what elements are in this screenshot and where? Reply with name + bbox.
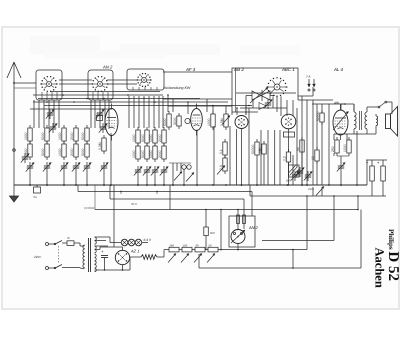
mixer shield box — [232, 68, 298, 115]
coil L1b — [24, 141, 32, 160]
label ABL — [333, 101, 340, 105]
svg-text:5000: 5000 — [141, 134, 145, 142]
svg-text:5000: 5000 — [41, 132, 45, 140]
resistor R11 — [173, 113, 181, 129]
speaker return wire — [334, 130, 376, 134]
wire col 307 — [306, 184, 308, 186]
trimmer CT9 — [160, 166, 168, 176]
resistor R22 — [311, 147, 319, 164]
voltage tap arrow 4 — [207, 254, 215, 263]
filter choke L20 — [141, 255, 157, 260]
band switch S1 box — [36, 70, 62, 100]
svg-text:50: 50 — [209, 243, 213, 247]
wire hv rail — [179, 249, 307, 251]
svg-text:1000: 1000 — [149, 134, 153, 142]
label AF 3 — [185, 67, 196, 72]
resistor R13 — [316, 110, 324, 125]
coil L4a — [70, 125, 78, 144]
potentiometer P2 — [217, 166, 225, 175]
wire col 261 — [260, 130, 262, 185]
ground bus — [14, 184, 367, 186]
tube V1 AF7 — [105, 104, 118, 141]
oscillator trimmer — [264, 99, 272, 109]
dial lamp LP3 — [135, 239, 142, 246]
coil L7b — [141, 143, 149, 162]
wire heater drop — [113, 185, 115, 247]
wire box internals — [42, 87, 157, 100]
trimmer CT5 — [83, 162, 91, 172]
heater wiring — [95, 237, 122, 246]
coil L6b — [132, 143, 140, 162]
svg-text:3000: 3000 — [173, 117, 177, 125]
svg-text:(n+80m): (n+80m) — [84, 206, 95, 210]
capacitor C40 — [101, 249, 108, 270]
mains terminals — [33, 243, 49, 270]
capacitor C3 row — [96, 109, 107, 133]
capacitor C41 — [204, 210, 215, 250]
svg-text:AN 2: AN 2 — [102, 65, 113, 70]
coil L8a — [149, 127, 157, 146]
voltage tap arrow 2 — [181, 254, 189, 263]
wire colm3 — [154, 176, 156, 186]
trimmer CT12 — [291, 171, 299, 181]
resistor R31 — [182, 243, 192, 252]
band switch S4 — [266, 77, 287, 97]
svg-text:2000: 2000 — [70, 132, 74, 140]
wire col 329 — [328, 104, 330, 185]
svg-text:10: 10 — [311, 156, 315, 160]
coil L5b — [81, 141, 89, 160]
svg-text:0,5M: 0,5M — [220, 118, 224, 126]
voltage tap arrow 1 — [168, 254, 176, 263]
trimmer CT4 — [72, 162, 80, 172]
band switch S2 box — [88, 70, 113, 100]
wire col 317 — [316, 131, 318, 185]
label AN 2 jack — [248, 225, 259, 230]
wire antenna links — [13, 82, 36, 88]
wire net C — [110, 185, 244, 214]
wire colm2 — [146, 176, 148, 186]
svg-text:1000: 1000 — [24, 132, 28, 140]
title Philips D 52 — [385, 229, 400, 281]
wire net I — [199, 250, 361, 269]
svg-text:Aachen: Aachen — [373, 248, 387, 288]
tube V2 AF7 — [191, 104, 203, 136]
output transformer — [345, 104, 367, 134]
trimmer CT3 — [60, 162, 68, 172]
svg-text:ABL: ABL — [333, 101, 340, 105]
coil L4b — [70, 141, 78, 160]
wire colm1 — [137, 176, 139, 186]
wire col 280 — [279, 130, 281, 185]
wire net F — [262, 196, 334, 241]
resistor R20 — [343, 137, 351, 156]
wire col 257 — [256, 158, 258, 186]
coil L5a — [81, 125, 89, 144]
svg-text:90: 90 — [196, 243, 200, 247]
coil L2a — [41, 125, 49, 144]
svg-text:AZ 1: AZ 1 — [130, 249, 139, 254]
svg-text:AN 2: AN 2 — [248, 225, 259, 230]
resistor R18 — [283, 149, 291, 165]
wire col3 — [63, 172, 65, 186]
svg-text:1M: 1M — [258, 148, 262, 153]
trimmer CT13 — [296, 167, 304, 177]
svg-text:Si: Si — [67, 236, 70, 240]
resistor R10 — [163, 111, 171, 130]
trimmer CT7 — [143, 166, 151, 176]
diode detector cluster — [169, 163, 194, 186]
trimmer CT1 — [26, 162, 34, 172]
power transformer secondary — [95, 237, 97, 272]
label AN 2 — [102, 65, 113, 70]
svg-text:150: 150 — [183, 243, 188, 247]
speaker voice coil — [376, 114, 378, 130]
mains switch — [49, 241, 63, 269]
svg-text:Vorbereitung KW: Vorbereitung KW — [163, 86, 191, 90]
label AL 4 — [333, 67, 344, 72]
power transformer core — [89, 238, 91, 272]
svg-text:1000: 1000 — [58, 132, 62, 140]
svg-text:1000: 1000 — [343, 144, 347, 152]
wire col1 — [29, 172, 31, 186]
resistor R19 — [331, 137, 339, 156]
svg-text:250: 250 — [331, 146, 335, 152]
power transformer primary — [80, 243, 85, 269]
band switch S2 — [91, 76, 109, 92]
tube V4 ABC1 — [281, 114, 296, 129]
label AB 2 — [233, 67, 244, 72]
ground — [10, 185, 19, 202]
resistor R12 — [207, 111, 215, 130]
svg-text:6,3 V: 6,3 V — [144, 238, 152, 242]
junction dots mesh — [46, 94, 250, 109]
wire choke out — [157, 250, 169, 257]
svg-text:50 V: 50 V — [131, 202, 138, 206]
title Aachen — [373, 248, 387, 288]
resistor R33 — [208, 243, 218, 252]
svg-text:5000: 5000 — [141, 150, 145, 158]
choke L10 — [286, 165, 299, 183]
band switch S1 — [40, 76, 58, 92]
capacitor C30 — [366, 160, 374, 196]
jack box AN 2 — [229, 216, 255, 247]
svg-text:0,3M: 0,3M — [98, 142, 102, 150]
coil L3a — [58, 125, 66, 144]
speaker — [386, 107, 398, 137]
resistor R14 — [219, 139, 227, 158]
svg-text:2000: 2000 — [158, 134, 162, 142]
wire dc out — [130, 257, 141, 270]
wire V3 bottom — [241, 129, 243, 186]
wire cap rail — [366, 160, 387, 185]
wire col 275 — [274, 130, 276, 185]
svg-text:1000: 1000 — [24, 148, 28, 156]
tube V1 screen box — [97, 112, 103, 121]
svg-text:5000: 5000 — [81, 132, 85, 140]
coil L7a — [141, 127, 149, 146]
svg-text:5000: 5000 — [41, 148, 45, 156]
label Vorbereitung KW — [163, 86, 191, 90]
dial lamp LP2 — [128, 239, 135, 246]
trimmer CT8 — [151, 166, 159, 176]
coil L9a — [158, 127, 166, 146]
svg-text:0,2: 0,2 — [283, 156, 287, 161]
wire V5 anode — [341, 103, 346, 106]
label 50V — [121, 192, 157, 207]
svg-text:220V: 220V — [33, 255, 42, 259]
band switch S3 box — [127, 69, 164, 90]
svg-text:2000: 2000 — [70, 148, 74, 156]
wire col5 — [86, 172, 88, 186]
svg-text:50: 50 — [296, 147, 300, 151]
tube V4 socket — [284, 132, 295, 137]
svg-text:5u: 5u — [34, 195, 38, 199]
svg-text:0,1: 0,1 — [219, 149, 223, 154]
svg-text:50000: 50000 — [251, 144, 255, 154]
wire V1 cathode — [103, 133, 112, 186]
resistor R15 — [219, 155, 227, 174]
antenna — [7, 62, 21, 185]
wire col 297 — [296, 108, 298, 167]
svg-text:2000: 2000 — [158, 150, 162, 158]
wire col 302 — [301, 184, 303, 186]
tube V3 oscillator — [235, 116, 248, 129]
svg-text:1000: 1000 — [132, 150, 136, 158]
wire col 249 — [248, 108, 250, 185]
dial lamp LP1 — [121, 239, 128, 246]
trimmer CT10 — [100, 162, 108, 172]
wire col 293 — [292, 155, 294, 185]
potentiometer P3 — [308, 187, 324, 197]
wire colm4 — [163, 176, 165, 186]
resistor R32 — [195, 243, 205, 252]
wire net H — [357, 209, 361, 268]
wire col4 — [75, 172, 77, 186]
rectifier AZ1 — [115, 247, 129, 270]
wire col 302b — [301, 152, 303, 185]
wire mains bottom — [62, 267, 80, 269]
capacitor C10 — [185, 118, 190, 123]
wire V5 bottom — [334, 134, 347, 156]
terminal T.A. — [306, 75, 316, 92]
wire verticals upper — [34, 87, 354, 185]
svg-text:5000: 5000 — [81, 148, 85, 156]
coil L1a — [24, 125, 32, 144]
tuning capacitor gang — [246, 88, 275, 110]
svg-text:2k0: 2k0 — [170, 243, 175, 247]
trimmer CT11 — [21, 153, 29, 163]
wire col 230 — [229, 126, 231, 185]
svg-text:AL 4: AL 4 — [333, 67, 344, 72]
tube V5 output AL4 — [333, 105, 349, 140]
svg-text:3n0: 3n0 — [210, 231, 215, 235]
label net C — [84, 206, 95, 210]
wire col2 — [46, 172, 48, 186]
svg-text:1000: 1000 — [132, 134, 136, 142]
trimmer CT6 — [134, 166, 142, 176]
label ABC 1 — [281, 67, 295, 72]
svg-text:200: 200 — [286, 179, 291, 183]
trimmer CT14 — [304, 171, 312, 181]
wire net D — [95, 185, 358, 210]
svg-text:1000: 1000 — [58, 148, 62, 156]
wire net G — [306, 196, 308, 250]
svg-text:1000: 1000 — [149, 150, 153, 158]
capacitor C20 below bus — [34, 185, 41, 199]
coil L6a — [132, 127, 140, 146]
wire col 357 — [356, 131, 358, 185]
svg-text:+: + — [101, 249, 104, 254]
trimmer CT2 — [43, 162, 51, 172]
scan ghost marks — [30, 36, 300, 58]
resistor R1 — [98, 135, 106, 154]
resistor R17 — [258, 141, 266, 157]
resistor R16 — [251, 139, 259, 158]
coil L2b — [41, 141, 49, 160]
wire lamps right — [142, 242, 148, 244]
potentiometer P1 — [220, 111, 230, 130]
wire col 268 — [267, 130, 269, 185]
capacitor C31 — [377, 160, 385, 196]
wire V2 bottom — [196, 130, 198, 186]
voltage tap arrow 3 — [194, 254, 202, 263]
svg-text:T.A.: T.A. — [306, 75, 311, 79]
svg-text:AF 3: AF 3 — [185, 67, 196, 72]
resistor R21 — [296, 137, 304, 155]
wire col 264 — [263, 157, 265, 185]
svg-text:50000: 50000 — [316, 111, 320, 121]
cathode network V5 — [337, 156, 349, 186]
coil L3b — [58, 141, 66, 160]
label AZ 1 — [130, 249, 139, 254]
wire rect bottom — [95, 269, 131, 271]
fuse F1 — [62, 236, 80, 245]
band switch S3 — [136, 73, 152, 87]
svg-text:xxxx: xxxx — [308, 187, 315, 191]
wire net E — [250, 185, 386, 197]
svg-text:1000: 1000 — [207, 118, 211, 126]
wire jack bottom — [237, 244, 239, 250]
label 6.3V — [144, 238, 152, 242]
speaker switch — [367, 101, 392, 114]
wire V4 bottom — [288, 129, 290, 186]
wire net E drop — [357, 196, 359, 210]
wire col 236 — [236, 129, 238, 185]
jack AN 2 — [231, 230, 245, 244]
wire col 214 — [213, 126, 215, 185]
wire rect top — [95, 247, 123, 249]
capacitor C2 row — [46, 109, 57, 133]
jack plug pins — [237, 210, 246, 230]
coil L9b — [158, 143, 166, 162]
svg-text:5000: 5000 — [163, 118, 167, 126]
wire mesh top — [30, 72, 345, 116]
resistor R30 — [169, 243, 179, 252]
coil L8b — [149, 143, 157, 162]
wire net D drop — [220, 210, 222, 251]
wire net B — [78, 185, 252, 216]
